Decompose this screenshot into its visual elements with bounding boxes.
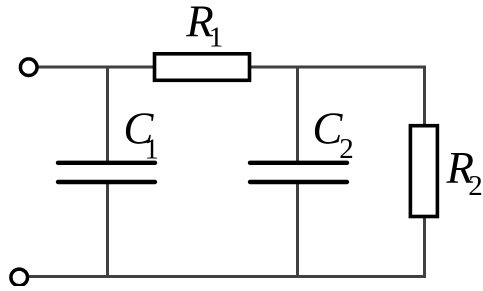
- wire C1 branch upper segment: [106, 67, 109, 163]
- label C2: [312, 104, 353, 166]
- wire top horizontal from input terminal to right corner: [37, 66, 425, 69]
- svg-text:1: 1: [209, 21, 224, 53]
- capacitor C1: [58, 163, 155, 182]
- svg-text:2: 2: [468, 170, 483, 202]
- wire bottom horizontal return: [27, 275, 426, 278]
- svg-text:2: 2: [339, 133, 354, 165]
- wire C1 branch lower segment: [106, 182, 109, 277]
- wire right vertical drop to R2: [423, 66, 426, 278]
- terminal bottom-left: [11, 269, 28, 286]
- resistor R2: [410, 126, 437, 217]
- wire C2 branch lower segment: [296, 182, 299, 277]
- wire C2 branch upper segment: [296, 67, 299, 163]
- resistor R1: [155, 54, 250, 81]
- terminal top-left: [20, 59, 37, 76]
- label R2: [446, 143, 483, 202]
- svg-text:1: 1: [144, 133, 159, 165]
- capacitor C2: [250, 163, 347, 182]
- label C1: [123, 104, 158, 166]
- label R1: [185, 0, 223, 53]
